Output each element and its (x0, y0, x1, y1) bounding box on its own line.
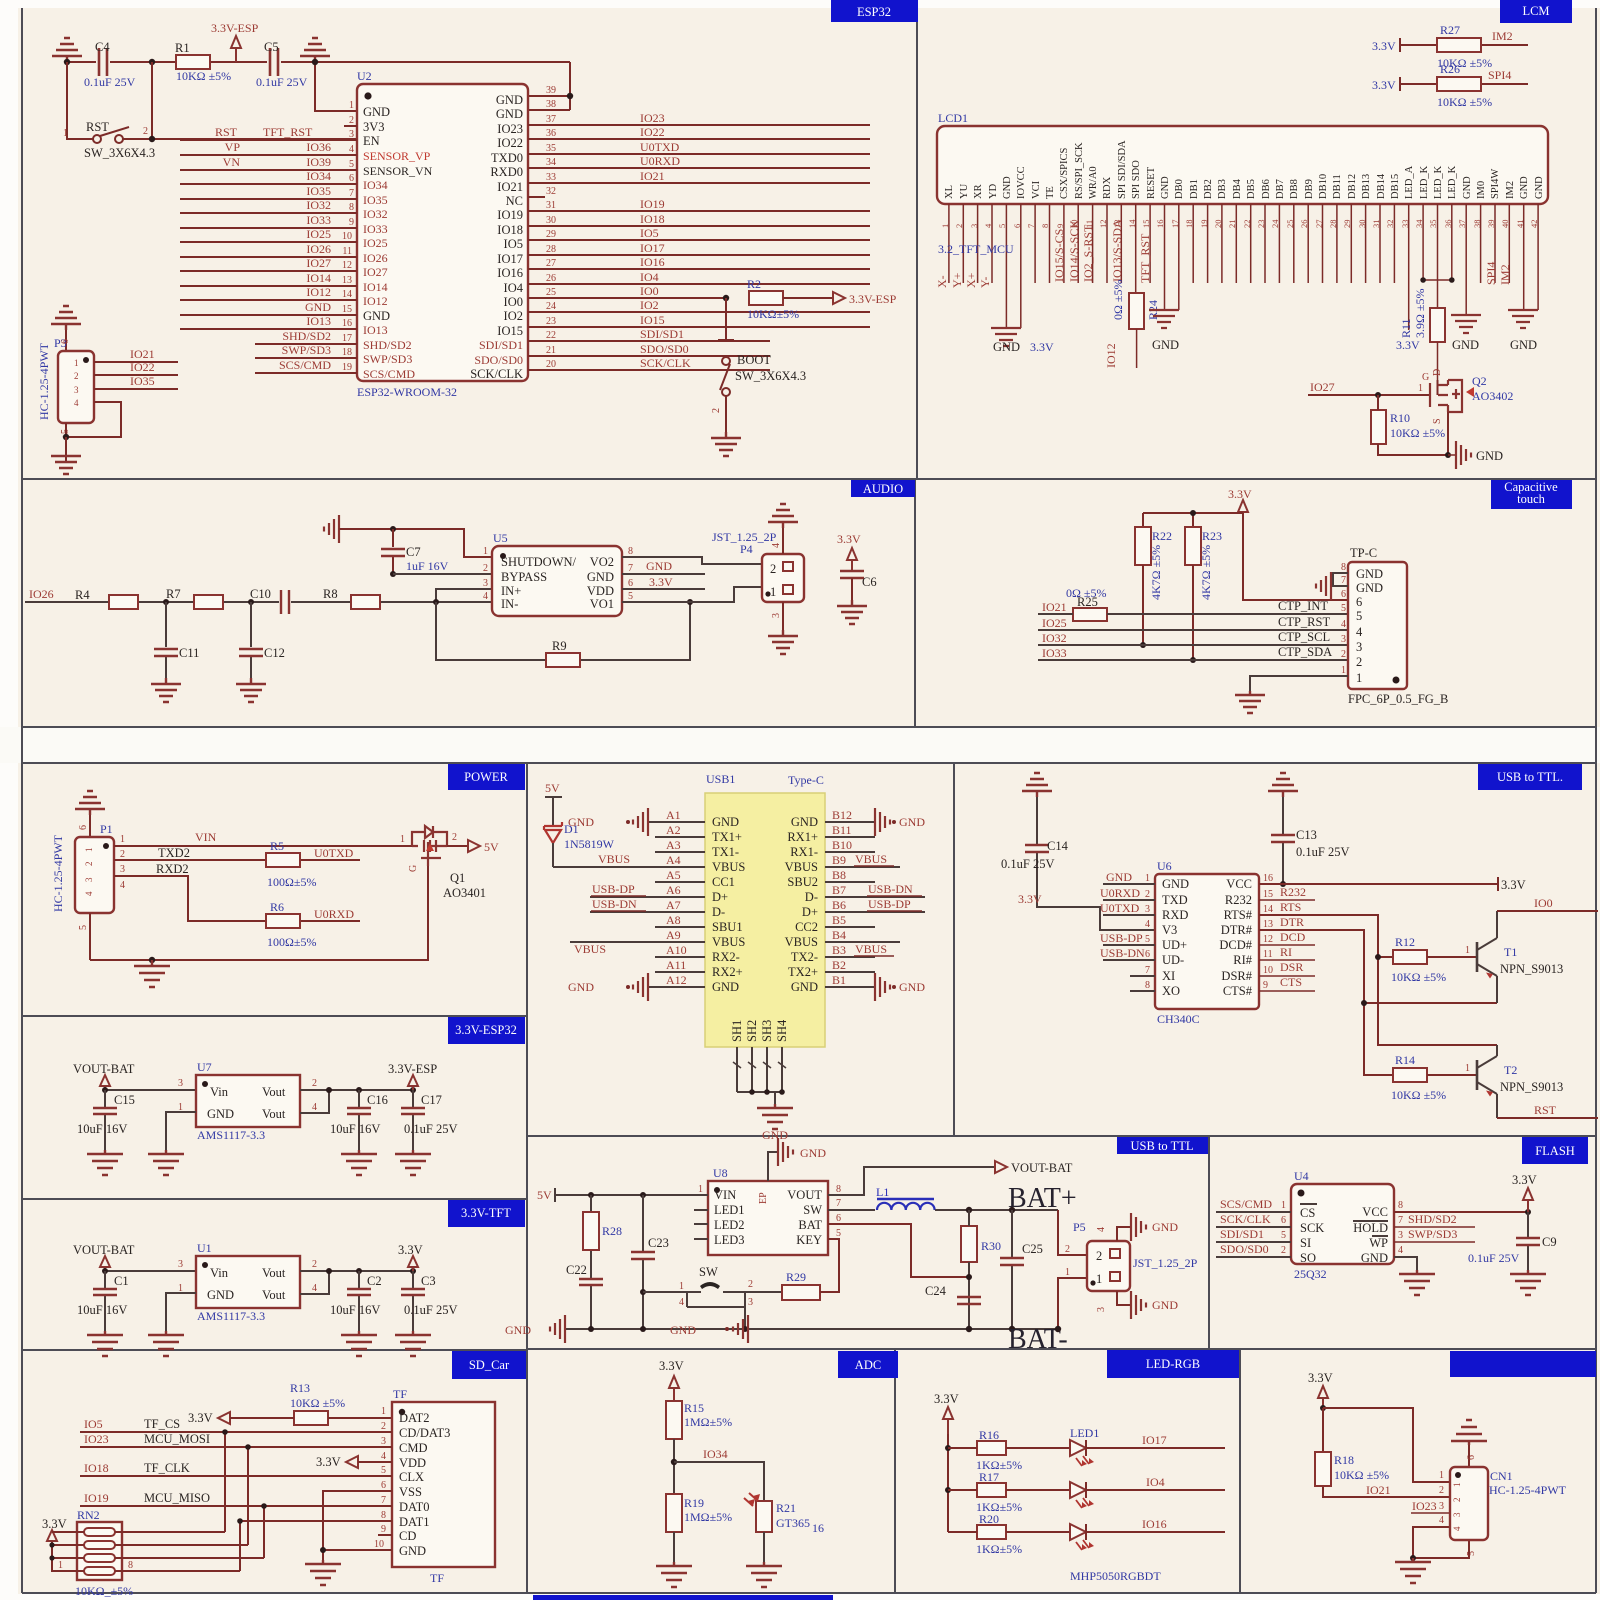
svg-text:XR: XR (973, 184, 984, 199)
resistor R4 (109, 595, 138, 609)
ground (151, 678, 181, 702)
svg-text:10: 10 (1263, 965, 1273, 976)
svg-text:23: 23 (546, 316, 556, 327)
svg-text:SDO/SD0: SDO/SD0 (640, 342, 689, 356)
svg-text:4: 4 (1341, 619, 1346, 630)
svg-text:3: 3 (381, 1436, 386, 1447)
svg-text:IO13: IO13 (306, 314, 331, 328)
svg-text:1: 1 (1145, 873, 1150, 884)
regulator U7 AMS1117-3.3 (196, 1075, 300, 1127)
svg-text:LCM: LCM (1522, 4, 1549, 18)
wire BAT+ to P5 pin2 (1058, 1210, 1087, 1255)
svg-text:DB11: DB11 (1332, 174, 1343, 199)
svg-text:SCS/CMD: SCS/CMD (1220, 1197, 1272, 1211)
svg-text:RST: RST (215, 125, 238, 139)
svg-text:DB10: DB10 (1318, 174, 1329, 199)
svg-text:2: 2 (452, 832, 457, 843)
svg-text:5: 5 (1145, 934, 1150, 945)
svg-text:SPI SDO: SPI SDO (1131, 160, 1142, 199)
svg-text:3.3V-TFT: 3.3V-TFT (461, 1206, 511, 1220)
svg-text:GND: GND (791, 980, 818, 994)
svg-text:Q2: Q2 (1472, 374, 1487, 388)
svg-text:USB to TTL.: USB to TTL. (1497, 770, 1563, 784)
svg-text:3.3V: 3.3V (1030, 340, 1054, 354)
svg-text:GND: GND (1162, 877, 1189, 891)
svg-text:1: 1 (120, 834, 125, 845)
svg-text:C17: C17 (421, 1093, 442, 1107)
capacitor C11 (163, 599, 169, 605)
svg-text:DCD#: DCD# (1219, 938, 1252, 952)
svg-text:DSR: DSR (1280, 960, 1303, 974)
svg-text:10KΩ ±5%: 10KΩ ±5% (290, 1396, 345, 1410)
svg-text:6: 6 (78, 825, 89, 830)
svg-text:R30: R30 (981, 1239, 1001, 1253)
svg-text:R7: R7 (166, 587, 181, 601)
svg-text:RX1+: RX1+ (787, 830, 818, 844)
ground pins 41-42 (1524, 309, 1538, 311)
svg-text:13: 13 (1263, 919, 1273, 930)
svg-text:0Ω ±5%: 0Ω ±5% (1111, 279, 1125, 320)
svg-text:10: 10 (342, 231, 352, 242)
resistor R10 (1371, 410, 1386, 444)
svg-text:1: 1 (1465, 1063, 1470, 1074)
svg-text:SBU1: SBU1 (712, 920, 743, 934)
svg-text:R21: R21 (776, 1501, 796, 1515)
svg-text:16: 16 (812, 1521, 824, 1535)
ground (875, 808, 890, 836)
svg-text:R11: R11 (1399, 318, 1413, 338)
svg-text:RTS: RTS (1280, 900, 1301, 914)
svg-text:IO32: IO32 (1042, 631, 1067, 645)
svg-text:IO12: IO12 (306, 285, 331, 299)
pin7 GND / pin6 3.3V nets (622, 574, 705, 589)
svg-text:2: 2 (1096, 1249, 1102, 1263)
LCD1 pin wires (949, 215, 1538, 330)
ground (633, 973, 648, 1001)
svg-text:0.1uF 25V: 0.1uF 25V (404, 1122, 457, 1136)
svg-text:R232: R232 (1225, 893, 1252, 907)
svg-text:3: 3 (1356, 640, 1362, 654)
svg-text:3: 3 (1341, 634, 1346, 645)
svg-text:0.1uF 25V: 0.1uF 25V (1296, 845, 1349, 859)
svg-text:ESP32-WROOM-32: ESP32-WROOM-32 (357, 385, 457, 399)
svg-text:2: 2 (143, 126, 148, 137)
svg-text:SW_3X6X4.3: SW_3X6X4.3 (84, 146, 155, 160)
svg-text:SW_3X6X4.3: SW_3X6X4.3 (735, 369, 806, 383)
svg-text:1: 1 (1439, 1470, 1444, 1481)
svg-text:DB6: DB6 (1261, 179, 1272, 199)
svg-text:RXD0: RXD0 (490, 165, 523, 179)
svg-text:15: 15 (342, 304, 352, 315)
P5 bottom pin to ground (1117, 1291, 1131, 1305)
svg-text:USB-DN: USB-DN (592, 897, 637, 911)
svg-text:GND: GND (1152, 1298, 1178, 1312)
svg-text:0.1uF 25V: 0.1uF 25V (1468, 1251, 1520, 1265)
svg-text:1: 1 (1065, 1267, 1070, 1278)
svg-text:IO14: IO14 (306, 271, 331, 285)
svg-text:29: 29 (546, 229, 556, 240)
svg-text:CTS#: CTS# (1223, 984, 1253, 998)
svg-text:HC-1.25-4PWT: HC-1.25-4PWT (51, 834, 65, 912)
svg-text:RX1-: RX1- (790, 845, 818, 859)
resistor R26 (1400, 77, 1528, 91)
svg-text:R27: R27 (1440, 23, 1460, 37)
wire (105, 1270, 196, 1272)
svg-text:1: 1 (679, 1281, 684, 1292)
CTP net labels (1278, 599, 1332, 659)
wires to P4 (622, 557, 762, 602)
svg-text:1: 1 (400, 834, 405, 845)
svg-text:IO15: IO15 (497, 324, 523, 338)
svg-text:7: 7 (381, 1495, 386, 1506)
svg-text:4K7Ω ±5%: 4K7Ω ±5% (1199, 545, 1213, 600)
regulator U1 AMS1117-3.3 (196, 1256, 300, 1308)
svg-text:16: 16 (1263, 873, 1273, 884)
svg-text:3: 3 (1439, 1501, 1444, 1512)
svg-text:GND: GND (791, 815, 818, 829)
svg-text:5V: 5V (545, 781, 560, 795)
svg-text:IO32: IO32 (363, 207, 388, 221)
svg-text:R15: R15 (684, 1401, 704, 1415)
svg-text:USB-DP: USB-DP (868, 897, 911, 911)
svg-text:VOUT: VOUT (787, 1188, 822, 1202)
svg-text:37: 37 (546, 114, 556, 125)
svg-text:VBUS: VBUS (855, 852, 887, 866)
svg-text:6: 6 (349, 173, 354, 184)
svg-text:5: 5 (836, 1228, 841, 1239)
svg-text:1MΩ±5%: 1MΩ±5% (684, 1510, 732, 1524)
svg-text:DB8: DB8 (1289, 179, 1300, 199)
svg-text:IO21: IO21 (130, 347, 155, 361)
svg-text:B4: B4 (832, 928, 846, 942)
svg-text:R1: R1 (175, 41, 190, 55)
svg-text:IO27: IO27 (363, 265, 388, 279)
GND pin wire (166, 1293, 196, 1331)
svg-text:BAT+: BAT+ (1008, 1183, 1077, 1214)
svg-text:4K7Ω ±5%: 4K7Ω ±5% (1149, 545, 1163, 600)
capacitor C1 (104, 1271, 106, 1331)
svg-text:TFT_RST: TFT_RST (263, 125, 313, 139)
svg-text:IO33: IO33 (306, 213, 331, 227)
svg-text:36: 36 (546, 128, 556, 139)
svg-text:1uF 16V: 1uF 16V (406, 559, 449, 573)
node junctions (64, 59, 70, 65)
pin stubs (114, 846, 130, 876)
svg-text:LED_K: LED_K (1419, 165, 1430, 199)
svg-text:100Ω±5%: 100Ω±5% (267, 935, 317, 949)
svg-text:RTS#: RTS# (1224, 908, 1253, 922)
ground above P4 (782, 528, 784, 554)
svg-text:USB-DP: USB-DP (1100, 931, 1143, 945)
rotated net labels pins 1-4 (935, 272, 992, 288)
pins 7/8 to sideways ground (1331, 573, 1348, 586)
svg-text:P4: P4 (740, 542, 753, 556)
svg-text:Vout: Vout (262, 1085, 286, 1099)
ground top right (1268, 773, 1298, 797)
svg-text:RN2: RN2 (77, 1508, 100, 1522)
pin4 to ground (1394, 1257, 1417, 1270)
svg-text:IO35: IO35 (130, 374, 155, 388)
ground top left (1022, 773, 1052, 797)
svg-text:R4: R4 (75, 588, 90, 602)
svg-text:4: 4 (1452, 1526, 1462, 1531)
ground above P1 (75, 791, 105, 815)
svg-text:4: 4 (312, 1102, 317, 1113)
wire pin3 (436, 589, 492, 602)
ground pin5 (1006, 327, 1020, 329)
svg-text:GND: GND (568, 980, 594, 994)
svg-text:VP: VP (225, 140, 241, 154)
svg-text:DB9: DB9 (1304, 179, 1315, 199)
switch RST SW_3X6X4.3 (67, 62, 357, 139)
svg-text:20: 20 (546, 359, 556, 370)
svg-text:2: 2 (1341, 649, 1346, 660)
svg-text:4: 4 (349, 144, 354, 155)
svg-text:3.3V: 3.3V (1396, 338, 1420, 352)
svg-text:4: 4 (1439, 1515, 1444, 1526)
svg-text:TX2-: TX2- (791, 950, 818, 964)
svg-text:3.3V-ESP: 3.3V-ESP (211, 21, 259, 35)
svg-text:IO18: IO18 (84, 1461, 109, 1475)
svg-text:4: 4 (1398, 1245, 1403, 1256)
svg-text:1KΩ±5%: 1KΩ±5% (976, 1542, 1022, 1556)
svg-text:C12: C12 (264, 646, 285, 660)
resistor R30 (961, 1226, 977, 1262)
svg-text:SHUTDOWN/: SHUTDOWN/ (501, 555, 577, 569)
resistor R24 pin14 (1129, 293, 1144, 329)
svg-text:AMS1117-3.3: AMS1117-3.3 (197, 1128, 265, 1142)
svg-text:HC-1.25-4PWT: HC-1.25-4PWT (37, 342, 51, 420)
svg-text:DSR#: DSR# (1221, 969, 1252, 983)
svg-text:U0RXD: U0RXD (1100, 886, 1140, 900)
LCD1 pin names (944, 140, 1545, 199)
svg-text:12: 12 (342, 260, 352, 271)
svg-text:10KΩ ±5%: 10KΩ ±5% (1437, 95, 1492, 109)
svg-text:IO15/S-CS: IO15/S-CS (1052, 229, 1066, 282)
wire gnd to pin1 (315, 62, 357, 111)
svg-text:TX1+: TX1+ (712, 830, 742, 844)
svg-text:GND: GND (505, 1323, 531, 1337)
capacitor C24 (957, 1297, 981, 1304)
svg-text:2: 2 (1452, 1498, 1462, 1503)
svg-text:C16: C16 (367, 1093, 388, 1107)
svg-text:DB5: DB5 (1246, 179, 1257, 199)
svg-text:10: 10 (374, 1539, 384, 1550)
svg-text:GND: GND (800, 1146, 826, 1160)
svg-text:IO21: IO21 (1042, 600, 1067, 614)
pin7 / pin3 nets (1394, 1227, 1475, 1242)
svg-text:IO18: IO18 (497, 223, 523, 237)
svg-text:2: 2 (1281, 1245, 1286, 1256)
svg-text:7: 7 (628, 563, 633, 574)
svg-text:R13: R13 (290, 1381, 310, 1395)
svg-text:T1: T1 (1504, 945, 1517, 959)
svg-text:IO17: IO17 (497, 252, 523, 266)
svg-text:10KΩ ±5%: 10KΩ ±5% (176, 69, 231, 83)
svg-text:L1: L1 (876, 1185, 889, 1199)
svg-text:D-: D- (712, 905, 725, 919)
svg-text:IO0: IO0 (640, 284, 659, 298)
svg-text:USB-DP: USB-DP (592, 882, 635, 896)
svg-text:SDI/SD1: SDI/SD1 (479, 338, 523, 352)
svg-text:31: 31 (546, 200, 556, 211)
svg-text:C23: C23 (648, 1236, 669, 1250)
svg-text:IO21: IO21 (640, 169, 665, 183)
capacitor C3 (412, 1271, 414, 1331)
svg-text:10KΩ ±5%: 10KΩ ±5% (1390, 426, 1445, 440)
svg-text:AUDIO: AUDIO (863, 482, 903, 496)
svg-text:13: 13 (342, 275, 352, 286)
svg-text:8: 8 (1145, 980, 1150, 991)
svg-text:34: 34 (546, 157, 556, 168)
svg-text:5V: 5V (484, 840, 499, 854)
svg-text:IO19: IO19 (640, 197, 665, 211)
svg-text:DB3: DB3 (1217, 179, 1228, 199)
svg-text:15: 15 (1263, 889, 1273, 900)
svg-text:5: 5 (997, 224, 1007, 228)
net BAT+ (935, 1209, 1058, 1211)
svg-text:6: 6 (1356, 595, 1362, 609)
svg-text:CSX/SPICS: CSX/SPICS (1059, 147, 1070, 199)
svg-text:TF: TF (430, 1571, 444, 1585)
svg-text:40: 40 (1500, 220, 1510, 229)
svg-text:3.3V: 3.3V (1501, 878, 1526, 892)
svg-text:IO25: IO25 (363, 236, 388, 250)
svg-text:10uF 16V: 10uF 16V (77, 1122, 127, 1136)
pin numbers (698, 1184, 703, 1195)
svg-text:U0TXD: U0TXD (1100, 901, 1140, 915)
svg-text:Y+: Y+ (950, 272, 964, 288)
svg-text:2: 2 (349, 115, 354, 126)
svg-text:AO3401: AO3401 (443, 886, 486, 900)
svg-text:IO23: IO23 (640, 111, 665, 125)
svg-text:5: 5 (349, 159, 354, 170)
svg-text:VBUS: VBUS (598, 852, 630, 866)
svg-text:Vin: Vin (210, 1085, 229, 1099)
svg-text:CTP_INT: CTP_INT (1278, 599, 1328, 613)
svg-text:DB15: DB15 (1390, 174, 1401, 199)
svg-text:7: 7 (1398, 1215, 1403, 1226)
svg-text:TX1-: TX1- (712, 845, 739, 859)
svg-text:Type-C: Type-C (788, 773, 824, 787)
svg-text:VBUS: VBUS (855, 942, 887, 956)
svg-text:IO17: IO17 (640, 241, 665, 255)
svg-text:LED_A: LED_A (1404, 165, 1415, 199)
svg-text:IO35: IO35 (306, 184, 331, 198)
svg-text:U4: U4 (1294, 1169, 1309, 1183)
svg-text:GND: GND (587, 570, 614, 584)
svg-text:GND: GND (1152, 338, 1179, 352)
IC U8 charger (708, 1181, 828, 1255)
svg-text:USB1: USB1 (706, 772, 735, 786)
svg-text:SCK: SCK (1300, 1221, 1324, 1235)
svg-text:LED1: LED1 (1070, 1426, 1099, 1440)
svg-text:FLASH: FLASH (1535, 1144, 1575, 1158)
svg-text:10KΩ ±5%: 10KΩ ±5% (1391, 970, 1446, 984)
svg-text:MHP5050RGBDT: MHP5050RGBDT (1070, 1569, 1161, 1583)
svg-text:NPN_S9013: NPN_S9013 (1500, 962, 1563, 976)
svg-text:IO32: IO32 (306, 198, 331, 212)
svg-text:9: 9 (1263, 980, 1268, 991)
svg-text:10KΩ ±5%: 10KΩ ±5% (1391, 1088, 1446, 1102)
svg-text:IO4: IO4 (640, 270, 659, 284)
svg-text:12: 12 (1263, 934, 1273, 945)
svg-text:C5: C5 (264, 40, 279, 54)
svg-text:A9: A9 (666, 928, 681, 942)
svg-text:SH3: SH3 (760, 1020, 774, 1042)
svg-text:1MΩ±5%: 1MΩ±5% (684, 1415, 732, 1429)
transistor Q1 AO3401 (412, 826, 447, 866)
svg-text:R28: R28 (602, 1224, 622, 1238)
svg-text:IO25: IO25 (1042, 616, 1067, 630)
svg-text:YD: YD (988, 183, 999, 199)
svg-text:SD_Car: SD_Car (469, 1358, 510, 1372)
svg-text:R8: R8 (323, 587, 338, 601)
GND pin wire (166, 1112, 196, 1150)
svg-text:D: D (1432, 369, 1443, 376)
svg-text:RS/SPI_SCK: RS/SPI_SCK (1074, 142, 1085, 199)
svg-text:SI: SI (1300, 1236, 1311, 1250)
svg-text:S: S (1432, 418, 1443, 424)
svg-text:5: 5 (1356, 609, 1362, 623)
svg-text:1: 1 (381, 1406, 386, 1417)
svg-text:SHD/SD2: SHD/SD2 (282, 329, 331, 343)
svg-text:2: 2 (381, 1421, 386, 1432)
resistor R23 (1185, 527, 1201, 565)
pin1 to ground (1250, 676, 1348, 691)
svg-text:10uF 16V: 10uF 16V (77, 1303, 127, 1317)
ground (236, 678, 266, 702)
svg-text:TX2+: TX2+ (788, 965, 818, 979)
svg-text:VDD: VDD (399, 1456, 426, 1470)
svg-text:39: 39 (546, 85, 556, 96)
svg-text:WR/A0: WR/A0 (1088, 166, 1099, 199)
svg-text:VSS: VSS (399, 1485, 422, 1499)
svg-text:IO35: IO35 (363, 193, 388, 207)
svg-text:IO26: IO26 (363, 251, 388, 265)
BAT pin wire (828, 1224, 969, 1277)
svg-text:GND: GND (646, 559, 672, 573)
svg-text:4: 4 (1356, 625, 1363, 639)
svg-text:B10: B10 (832, 838, 852, 852)
svg-text:SPI SDI/SDA: SPI SDI/SDA (1117, 140, 1128, 199)
transistor T2 NPN_S9013 (1476, 1060, 1479, 1090)
svg-text:B9: B9 (832, 853, 846, 867)
svg-text:0.1uF 25V: 0.1uF 25V (404, 1303, 457, 1317)
LED2 (1070, 1482, 1086, 1498)
svg-text:A2: A2 (666, 823, 681, 837)
svg-text:IO12: IO12 (1104, 343, 1118, 368)
svg-text:SBU2: SBU2 (787, 875, 818, 889)
risers to nets (115, 1532, 264, 1571)
svg-text:VBUS: VBUS (785, 935, 818, 949)
svg-text:GND: GND (1356, 581, 1383, 595)
svg-text:1: 1 (1356, 671, 1362, 685)
svg-text:2: 2 (84, 862, 94, 867)
svg-text:2: 2 (312, 1078, 317, 1089)
svg-text:CH340C: CH340C (1157, 1012, 1200, 1026)
svg-text:R19: R19 (684, 1496, 704, 1510)
svg-text:C6: C6 (862, 575, 877, 589)
svg-text:IO15: IO15 (640, 313, 665, 327)
VOUT to VOUT-BAT (828, 1167, 995, 1195)
IC U2 ESP32-WROOM-32 (357, 84, 528, 381)
svg-text:SDO/SD0: SDO/SD0 (1220, 1242, 1269, 1256)
svg-text:A3: A3 (666, 838, 681, 852)
svg-text:A6: A6 (666, 883, 681, 897)
svg-text:3.3V: 3.3V (934, 1392, 959, 1406)
svg-text:10KΩ ±5%: 10KΩ ±5% (1334, 1468, 1389, 1482)
